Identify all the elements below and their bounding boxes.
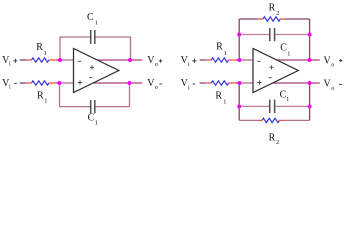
svg-text:1: 1	[286, 96, 289, 103]
svg-text:1: 1	[44, 50, 47, 57]
svg-text:i: i	[188, 85, 190, 92]
svg-text:R: R	[269, 2, 276, 13]
svg-text:o: o	[155, 61, 158, 68]
svg-text:R: R	[269, 133, 276, 144]
svg-text:i: i	[188, 61, 190, 68]
svg-text:1: 1	[287, 51, 290, 58]
svg-text:i: i	[9, 84, 11, 91]
svg-text:2: 2	[276, 139, 279, 146]
svg-text:R: R	[215, 91, 222, 102]
svg-text:2: 2	[276, 10, 279, 17]
svg-text:1: 1	[44, 98, 47, 105]
svg-text:o: o	[155, 84, 158, 91]
svg-text:C: C	[88, 113, 95, 124]
svg-text:R: R	[216, 42, 223, 53]
svg-text:1: 1	[95, 20, 98, 27]
svg-text:R: R	[37, 91, 44, 102]
svg-text:1: 1	[224, 50, 227, 57]
svg-text:o: o	[331, 61, 334, 68]
svg-text:C: C	[87, 12, 94, 23]
svg-text:R: R	[36, 42, 43, 53]
svg-text:i: i	[9, 61, 11, 68]
svg-text:C: C	[280, 43, 287, 54]
svg-text:1: 1	[223, 99, 226, 106]
svg-text:1: 1	[95, 120, 98, 127]
svg-text:o: o	[331, 85, 334, 92]
